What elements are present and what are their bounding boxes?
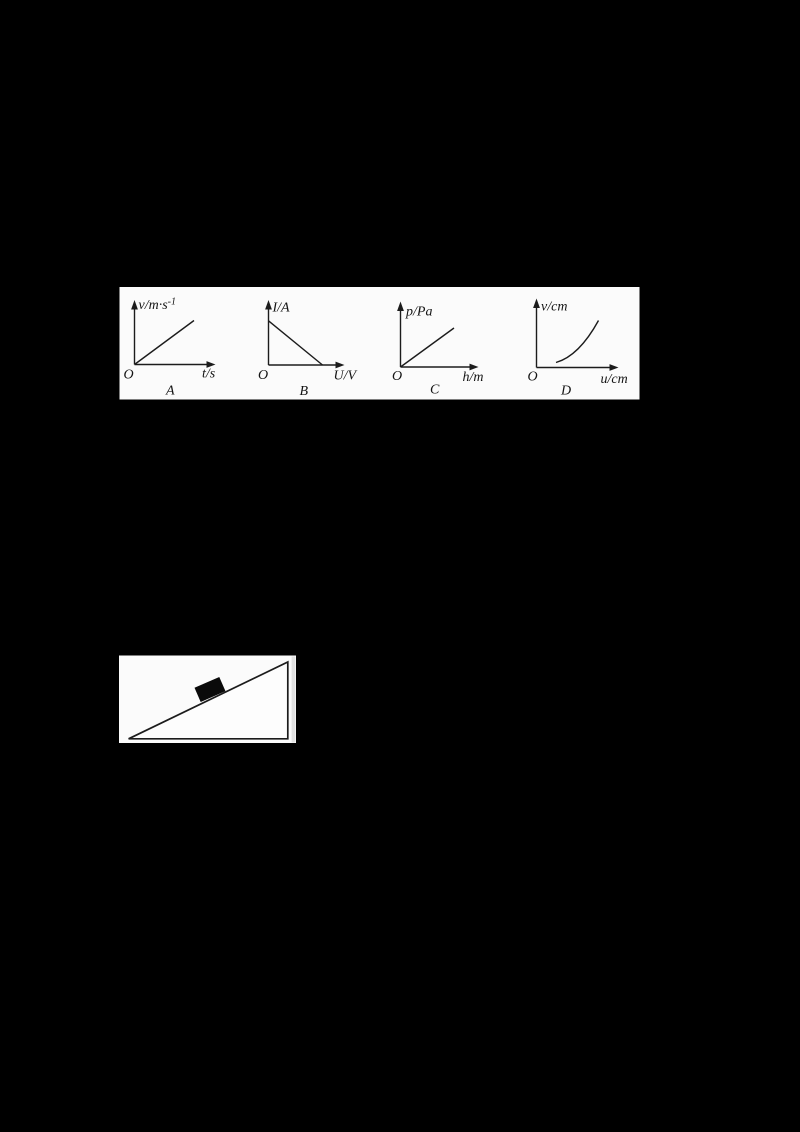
svg-text:t/s: t/s (202, 367, 216, 382)
svg-text:I/A: I/A (272, 301, 291, 316)
svg-text:h/m: h/m (463, 370, 484, 385)
svg-text:O: O (124, 368, 134, 383)
svg-text:p/Pa: p/Pa (405, 305, 432, 320)
svg-text:A: A (165, 384, 175, 399)
svg-text:C: C (430, 383, 440, 398)
svg-text:O: O (528, 370, 538, 385)
svg-text:U/V: U/V (334, 369, 358, 384)
svg-text:O: O (258, 368, 268, 383)
svg-text:v/cm: v/cm (541, 300, 567, 315)
svg-text:D: D (560, 384, 571, 399)
svg-text:B: B (300, 384, 309, 399)
svg-text:O: O (392, 369, 402, 384)
svg-text:u/cm: u/cm (601, 372, 628, 387)
